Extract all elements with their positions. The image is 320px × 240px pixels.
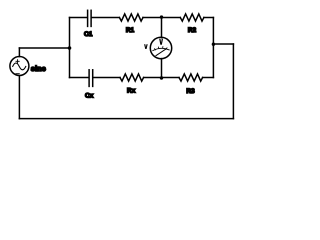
svg-text:R2: R2 <box>188 27 197 34</box>
wire source feed horizontal <box>19 47 69 49</box>
svg-text:sine: sine <box>31 64 46 73</box>
node junction left rail <box>68 46 72 50</box>
wire bottom branch to Cx <box>70 77 89 79</box>
wire right bridge vertical <box>212 18 214 78</box>
wire top branch to C1 <box>70 17 87 19</box>
wire Rx to node <box>144 77 162 79</box>
wire node to R2 <box>162 17 181 19</box>
wire R3 to right bridge <box>203 77 214 79</box>
resistor R2 <box>180 14 204 21</box>
capacitor Cx <box>89 70 93 87</box>
svg-text:Cx: Cx <box>85 93 94 100</box>
wire Cx to Rx <box>93 77 120 79</box>
node junction bottom (voltmeter bottom) <box>160 76 163 79</box>
svg-text:Rx: Rx <box>127 88 136 95</box>
capacitor C1 <box>88 10 92 26</box>
svg-text:R3: R3 <box>186 88 195 95</box>
voltmeter U1 <box>150 37 171 58</box>
node junction right bridge <box>212 43 215 46</box>
resistor Rx <box>120 74 144 81</box>
node junction top (voltmeter top) <box>160 15 163 18</box>
wire bridge node to outer rail <box>213 43 233 45</box>
wire bottom rail <box>19 118 233 120</box>
wire C1 to R1 <box>92 17 120 19</box>
resistor R1 <box>119 14 143 21</box>
label v at voltmeter left <box>144 44 148 49</box>
wire left return to source <box>18 76 20 119</box>
wire voltmeter bottom lead <box>161 59 163 78</box>
wire node to R3 <box>162 77 180 79</box>
wire left rail vertical <box>69 18 71 78</box>
wire source top lead <box>18 48 20 57</box>
svg-text:C1: C1 <box>84 31 93 38</box>
label V inside voltmeter <box>159 39 163 45</box>
wire R1 to node <box>143 17 162 19</box>
wire R2 to right corner <box>204 17 214 19</box>
svg-text:R1: R1 <box>126 27 135 34</box>
resistor R3 <box>179 74 203 81</box>
source V1 sine <box>10 57 29 76</box>
wire outer right rail <box>232 44 234 119</box>
wire voltmeter top lead <box>161 18 163 38</box>
